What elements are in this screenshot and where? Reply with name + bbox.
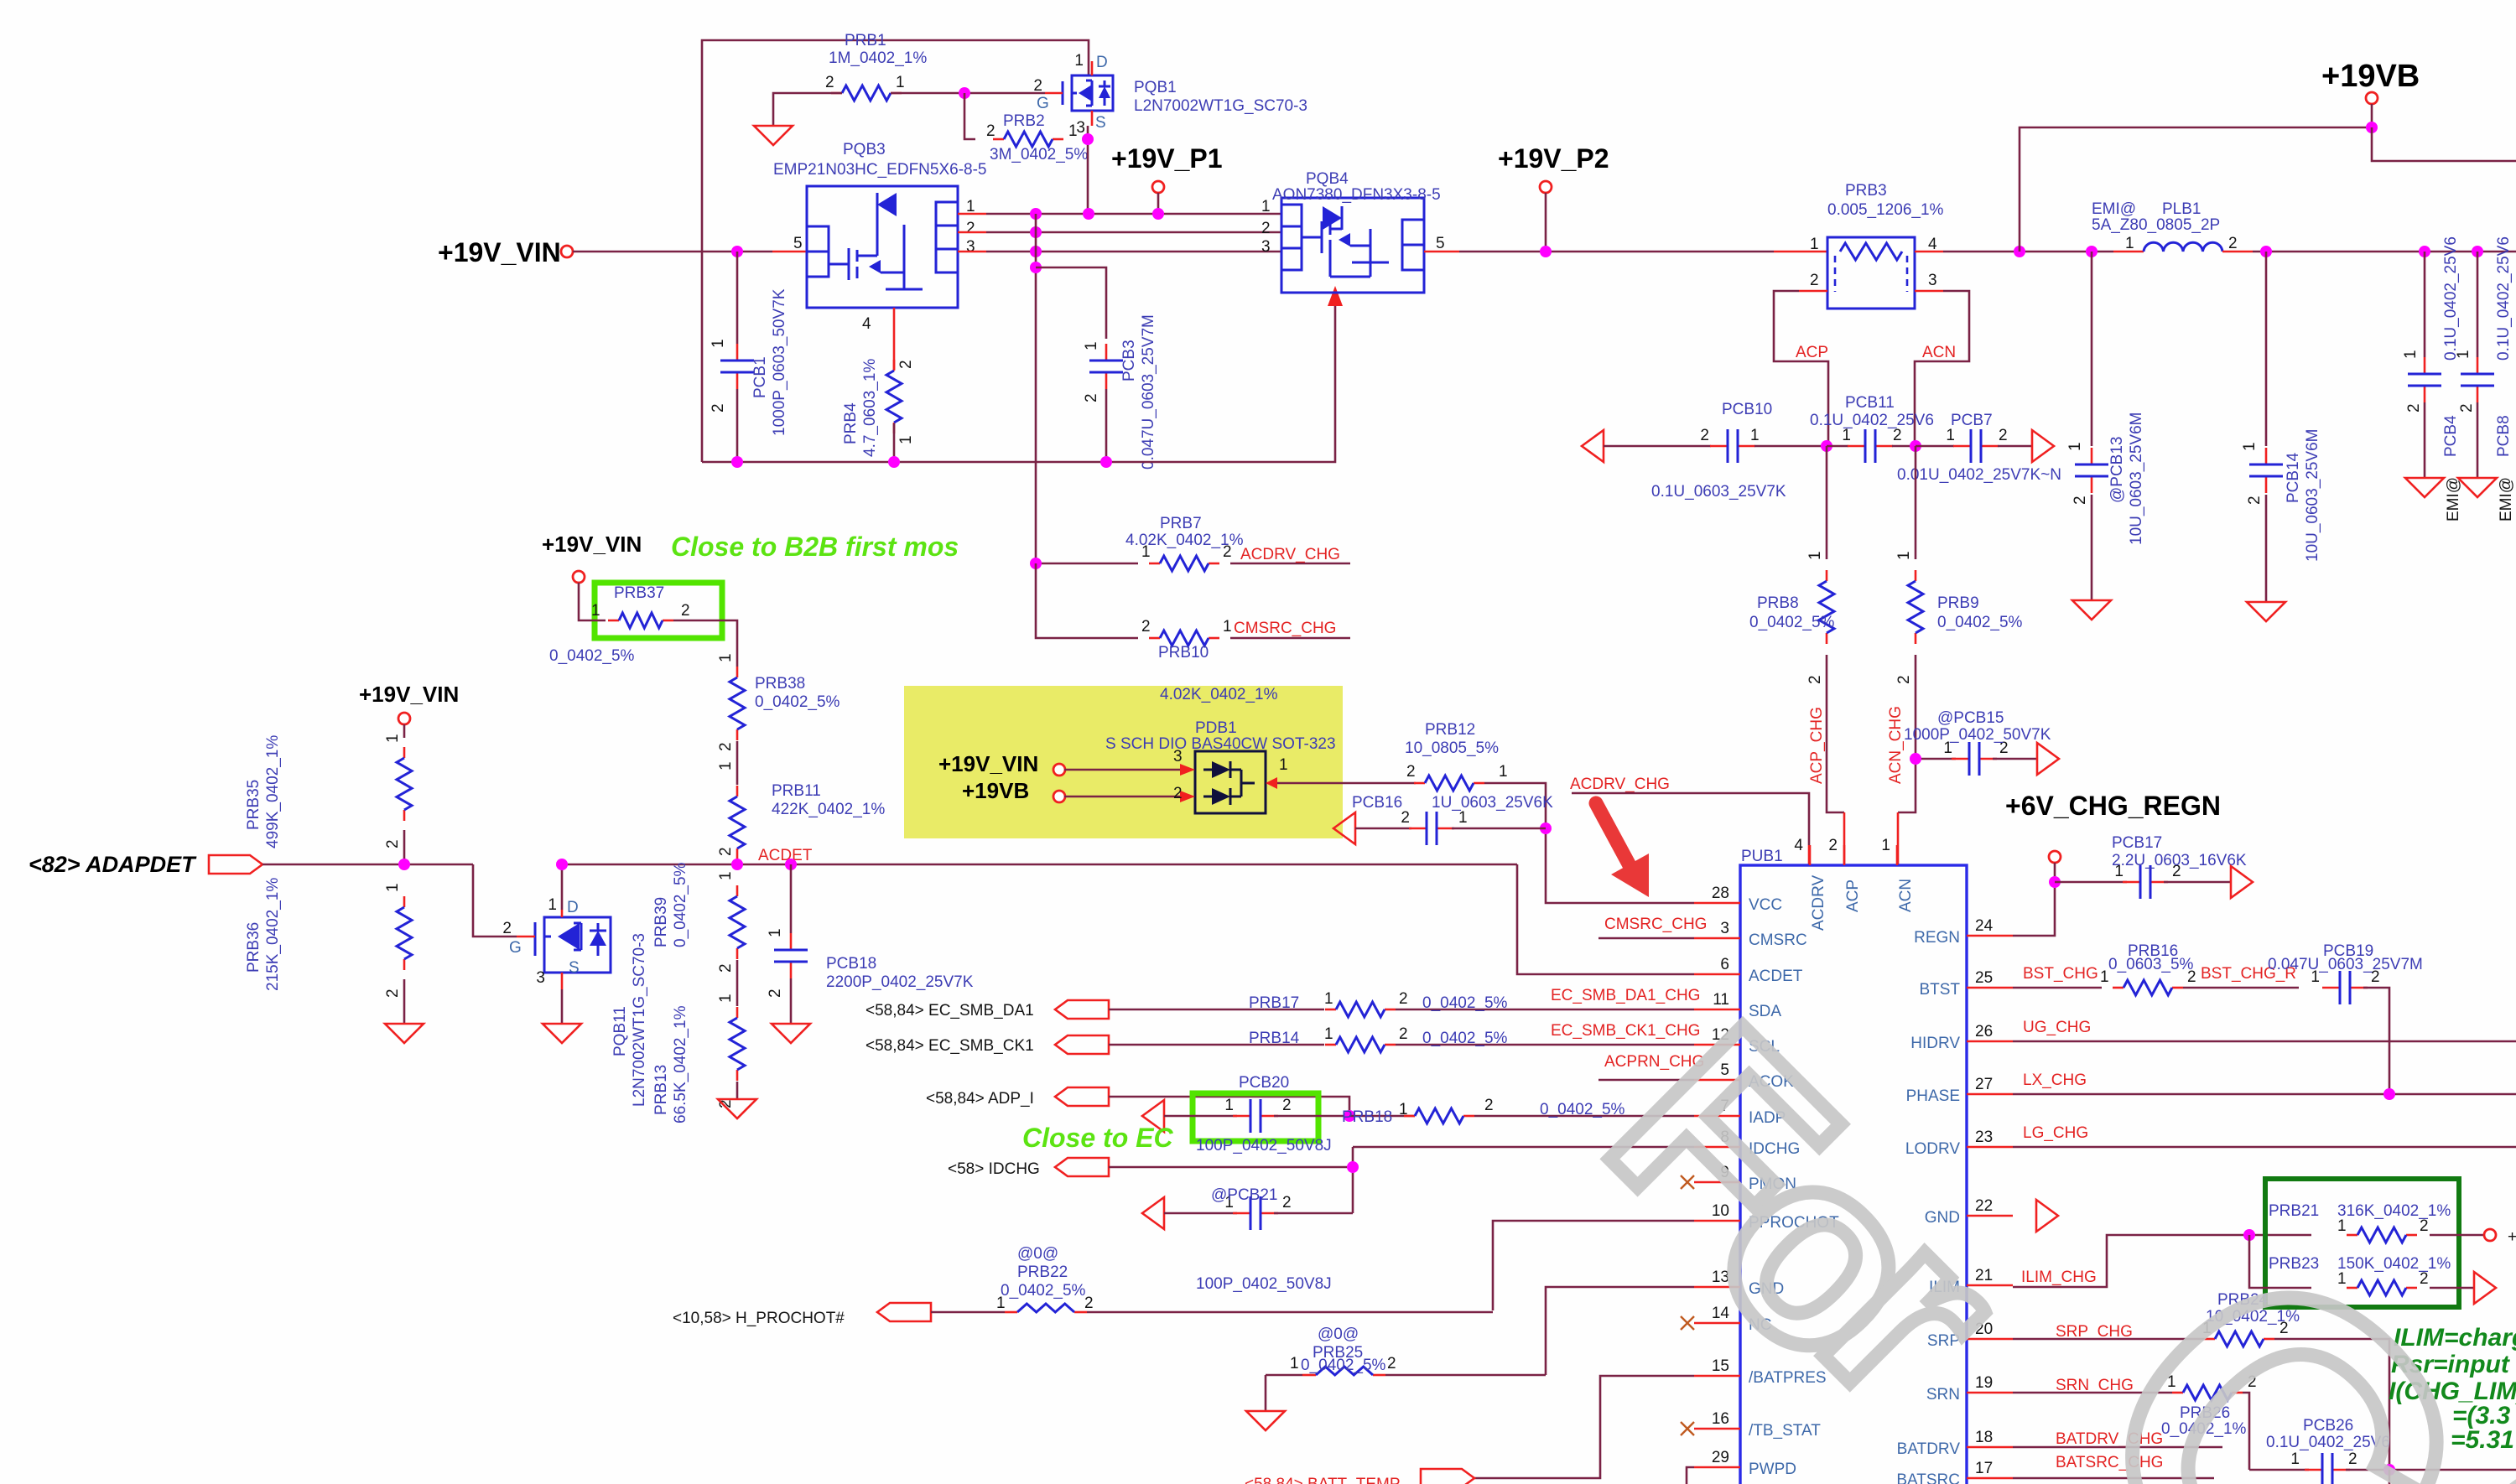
svg-text:6: 6	[1720, 956, 1729, 973]
svg-text:0.1U_0603_25V7K: 0.1U_0603_25V7K	[1651, 483, 1786, 501]
pin 17 BATSRC	[1967, 1477, 2013, 1480]
svg-text:2: 2	[2405, 403, 2423, 413]
svg-text:PCB16: PCB16	[1352, 794, 1402, 812]
node IDCHG junction	[1347, 1161, 1359, 1173]
pin 20 SRP	[1967, 1338, 2013, 1341]
svg-text:100P_0402_50V8J: 100P_0402_50V8J	[1196, 1275, 1332, 1293]
wire +19V_P2 down	[1545, 193, 1547, 252]
wire ADP_I	[1109, 1097, 1349, 1116]
wire PRB1 pin1 to PQB1 gate node	[891, 92, 1045, 95]
svg-text:PCB18: PCB18	[826, 955, 876, 973]
svg-text:PQB4: PQB4	[1306, 170, 1349, 188]
svg-text:0.047U_0603_25V7M: 0.047U_0603_25V7M	[2268, 956, 2423, 973]
node rail-PRB4	[888, 456, 900, 468]
resistor PRB25 0_0402_5% (jumper)	[1266, 1374, 1302, 1377]
svg-text:0_0402_5%: 0_0402_5%	[1937, 614, 2023, 631]
node PCB3 branch	[1030, 262, 1042, 273]
node PRB1/PQB1 gate junction	[959, 87, 970, 99]
wire PQB3 pin1 row A	[958, 213, 986, 215]
svg-text:1: 1	[1499, 763, 1508, 781]
ground at PRB25	[1246, 1411, 1285, 1430]
pin 11 SDA	[1694, 1009, 1740, 1011]
svg-text:S: S	[1095, 114, 1106, 132]
svg-text:2: 2	[2228, 235, 2238, 252]
svg-text:+19V_VIN: +19V_VIN	[542, 532, 642, 557]
wire PQB4 pin5 main bus to PRB3	[1424, 251, 1459, 253]
resistor PRB13 66.5K_0402_1%	[730, 1007, 745, 1081]
pin 4 ACDRV	[1809, 845, 1812, 865]
resistor PRB2	[993, 132, 1063, 147]
wire gate node down to PRB2	[964, 93, 975, 139]
svg-text:0_0402_5%: 0_0402_5%	[1301, 1357, 1386, 1374]
wire +19V_P1 to row A	[1157, 193, 1160, 214]
svg-text:1: 1	[1750, 427, 1760, 444]
svg-text:CMSRC: CMSRC	[1749, 931, 1807, 949]
wire PRB2 pin1 / PQB1 source to row A	[1087, 126, 1089, 214]
node PRB7 tap	[1030, 558, 1042, 569]
svg-text:2: 2	[986, 122, 995, 140]
svg-text:10U_0603_25V6M: 10U_0603_25V6M	[2128, 413, 2145, 545]
svg-text:1: 1	[1290, 1355, 1299, 1372]
wire BATPRES to BATT_TEMP	[1474, 1376, 1694, 1478]
resistor PRB36 215K_0402_1%	[397, 896, 412, 970]
wire ACPRN_CHG to ACOK	[1598, 1079, 1694, 1082]
resistor PRB17 0_0402_5%	[1325, 1002, 1396, 1017]
capacitor PCB18 2200P_0402_25V7K	[790, 864, 793, 933]
svg-text:2: 2	[1083, 393, 1100, 402]
wire PRB25 to ground	[1265, 1375, 1267, 1411]
wire PRB37 to PRB38	[673, 620, 737, 667]
capacitor PCB16 1U_0603_25V6K	[1333, 812, 1355, 844]
svg-text:Close to B2B first mos: Close to B2B first mos	[671, 532, 959, 562]
svg-text:+19VB: +19VB	[962, 778, 1029, 803]
node +19V_P2 junction	[1540, 246, 1552, 257]
svg-text:0_0402_5%: 0_0402_5%	[1749, 614, 1835, 631]
transistor PQB4 AON7380_DFN3X3-8-5	[1281, 198, 1424, 293]
wire PRB1 pin2 to ground	[773, 93, 842, 126]
svg-text:0.01U_0402_25V7K~N: 0.01U_0402_25V7K~N	[1897, 466, 2061, 484]
svg-text:3: 3	[536, 969, 545, 987]
svg-text:2: 2	[502, 920, 512, 937]
wire PRB11 to ACDET	[736, 860, 739, 865]
svg-text:S: S	[569, 959, 580, 977]
resistor PRB14 0_0402_5%	[1325, 1037, 1396, 1052]
node REGN junction	[2049, 876, 2061, 888]
svg-text:@PCB13: @PCB13	[2108, 437, 2126, 504]
svg-text:0_0402_5%: 0_0402_5%	[1422, 994, 1508, 1012]
svg-text:PRB9: PRB9	[1937, 594, 1979, 612]
svg-text:ACDRV: ACDRV	[1810, 875, 1827, 931]
svg-text:25: 25	[1975, 969, 1993, 987]
svg-text:PRB1: PRB1	[845, 32, 886, 49]
ground at PCB13	[2072, 600, 2111, 620]
pin 6 ACDET	[1694, 973, 1740, 976]
svg-text:2: 2	[1141, 618, 1151, 636]
svg-text:UG_CHG: UG_CHG	[2023, 1019, 2091, 1036]
highlight yellow box around PDB1	[904, 686, 1343, 838]
resistor PRB3 0.005_1206_1% (sense)	[1827, 237, 1915, 309]
node PCB26 junction	[2383, 1464, 2395, 1476]
svg-text:1U_0603_25V6K: 1U_0603_25V6K	[1432, 794, 1553, 812]
svg-text:PRB35: PRB35	[245, 780, 263, 830]
svg-text:2: 2	[1700, 427, 1709, 444]
svg-text:PRB39: PRB39	[652, 897, 670, 947]
svg-text:VCC: VCC	[1749, 896, 1782, 914]
wire SRN	[2013, 1392, 2172, 1394]
svg-text:2: 2	[1893, 427, 1902, 444]
wire +19V_VIN to PRB37	[579, 583, 606, 620]
svg-text:0.005_1206_1%: 0.005_1206_1%	[1827, 201, 1944, 219]
wire BATDRV out	[2013, 1446, 2222, 1449]
svg-text:PCB3: PCB3	[1120, 340, 1138, 381]
svg-text:29: 29	[1712, 1449, 1729, 1466]
ground at PCB8	[2458, 478, 2497, 497]
wire +19VB to right edge	[2372, 127, 2516, 161]
node @PCB15 junction	[1910, 753, 1921, 765]
svg-text:PCB8: PCB8	[2495, 415, 2513, 457]
node row B tie	[1030, 226, 1042, 238]
wire +19V_VIN to PQB3 pin5	[573, 251, 772, 253]
svg-text:26: 26	[1975, 1023, 1993, 1040]
svg-text:REGN: REGN	[1914, 929, 1960, 947]
wire PRB38 to PRB11	[736, 741, 739, 785]
svg-text:G: G	[1037, 95, 1049, 112]
wire sense column down	[1036, 563, 1138, 638]
svg-text:2: 2	[1810, 272, 1819, 289]
svg-text:1: 1	[1279, 756, 1288, 774]
resistor PRB9 0_0402_5%	[1915, 446, 1917, 559]
svg-text:2: 2	[1806, 675, 1824, 684]
svg-text:PCB4: PCB4	[2442, 415, 2460, 457]
svg-text:EMI@: EMI@	[2092, 200, 2136, 218]
resistor PRB18 0_0402_5%	[1349, 1115, 1415, 1118]
wire ACDET to pin 6	[1517, 864, 1694, 974]
svg-text:PCB14: PCB14	[2285, 452, 2302, 503]
wire PCB3 branch	[1036, 267, 1106, 339]
svg-text:PRB8: PRB8	[1757, 594, 1799, 612]
svg-text:2: 2	[1223, 543, 1232, 561]
capacitor PCB14 10U_0603_25V6M	[2265, 252, 2268, 446]
inductor PLB1 5A_Z80_0805_2P	[2144, 242, 2222, 252]
svg-text:0.047U_0603_25V7M: 0.047U_0603_25V7M	[1140, 314, 1157, 470]
capacitor PCB4 0.1U_0402_25V6	[2424, 252, 2426, 357]
svg-text:1: 1	[767, 928, 784, 937]
svg-text:Close to EC: Close to EC	[1022, 1123, 1173, 1153]
svg-text:ACN: ACN	[1897, 879, 1915, 912]
resistor PRB10 4.02K_0402_1%	[1149, 630, 1219, 646]
resistor PRB16 0_0603_5%	[2113, 980, 2183, 995]
wire IDCHG column to pin 8	[1353, 1146, 1694, 1149]
wire ADAPDET	[263, 864, 473, 866]
wire PRB39 to PRB13	[736, 960, 739, 1006]
arrow right PCB7	[2032, 430, 2054, 462]
pin 3 CMSRC	[1694, 937, 1740, 940]
wire PRB3 pin2 to ACP	[1799, 290, 1827, 293]
svg-text:1: 1	[717, 994, 735, 1003]
annotation red arrow	[1596, 803, 1649, 897]
node rail-PCB3	[1100, 456, 1112, 468]
svg-text:BATDRV: BATDRV	[1897, 1440, 1961, 1458]
wire GND pin13 from PRB25	[1546, 1287, 1694, 1375]
svg-text:1: 1	[897, 435, 915, 444]
resistor PRB37 0_0402_5%	[608, 613, 673, 628]
svg-text:0_0603_5%: 0_0603_5%	[2108, 956, 2194, 973]
transistor PQB3 EMP21N03HC_EDFN5X6-8-5	[807, 186, 958, 308]
svg-text:PRB37: PRB37	[614, 584, 664, 602]
svg-text:ACDET: ACDET	[758, 847, 813, 864]
capacitor @PCB15 1000P_0402_50V7K	[1916, 758, 1956, 760]
svg-text:23: 23	[1975, 1129, 1993, 1146]
wire GND pin22 arrow	[2036, 1200, 2058, 1232]
svg-text:2: 2	[1999, 427, 2008, 444]
svg-text:ACDRV_CHG: ACDRV_CHG	[1570, 776, 1670, 793]
svg-text:1: 1	[2455, 350, 2472, 359]
pin 18 BATDRV	[1967, 1446, 2013, 1449]
transistor PQB1 L2N7002WT1G_SC70-3	[1045, 61, 1113, 126]
svg-text:CMSRC_CHG: CMSRC_CHG	[1604, 916, 1707, 933]
wire CMSRC_CHG	[1598, 937, 1694, 940]
svg-text:2: 2	[681, 602, 690, 620]
svg-text:+19V_P2: +19V_P2	[1498, 143, 1609, 174]
svg-text:PDB1: PDB1	[1195, 719, 1237, 737]
node row A tie	[1030, 208, 1042, 220]
wire PQB11 drain to ACDET wire	[562, 864, 1517, 910]
node row C tie	[1030, 246, 1042, 257]
svg-text:PRB22: PRB22	[1017, 1263, 1068, 1281]
svg-text:0.1U_0402_25V6: 0.1U_0402_25V6	[2495, 236, 2513, 361]
diode PDB1 S SCH DIO BAS40CW SOT-323	[1064, 751, 1277, 813]
svg-text:2: 2	[825, 74, 834, 91]
svg-text:2: 2	[717, 963, 735, 973]
svg-text:215K_0402_1%: 215K_0402_1%	[264, 878, 282, 991]
power terminal PRB21 right	[2484, 1229, 2496, 1241]
pin 28 VCC	[1694, 902, 1740, 905]
svg-text:SRN: SRN	[1926, 1386, 1960, 1404]
ground at PQB11	[543, 1024, 581, 1043]
node ACN junction	[1910, 440, 1921, 452]
wire BTST to PRB16	[2013, 987, 2102, 989]
svg-text:2: 2	[1399, 990, 1408, 1008]
svg-text:2: 2	[1828, 837, 1838, 854]
svg-text:HIDRV: HIDRV	[1910, 1035, 1960, 1052]
svg-text:EMP21N03HC_EDFN5X6-8-5: EMP21N03HC_EDFN5X6-8-5	[773, 161, 987, 179]
svg-text:<10,58> H_PROCHOT#: <10,58> H_PROCHOT#	[673, 1310, 845, 1327]
svg-text:2: 2	[1173, 785, 1183, 802]
svg-text:2.2U_0603_16V6K: 2.2U_0603_16V6K	[2112, 852, 2247, 869]
capacitor PCB20 100P_0402_50V8J	[1142, 1100, 1164, 1132]
svg-text:2: 2	[710, 403, 727, 413]
node ADP_I/PCB20 junction	[1344, 1110, 1355, 1122]
ground at PCB18	[772, 1024, 810, 1043]
svg-text:<58,84> EC_SMB_DA1: <58,84> EC_SMB_DA1	[866, 1002, 1034, 1020]
svg-text:10_0805_5%: 10_0805_5%	[1405, 739, 1499, 757]
svg-text:66.5K_0402_1%: 66.5K_0402_1%	[672, 1005, 689, 1123]
node +19V_P1 junction	[1152, 208, 1164, 220]
svg-text:ACN: ACN	[1922, 344, 1956, 361]
wire ILIM down to PRB23	[2249, 1235, 2311, 1288]
arrow right PCB17	[2231, 866, 2253, 898]
svg-text:1: 1	[2066, 442, 2084, 451]
wire EC_SMB_CK1	[1109, 1044, 1324, 1046]
svg-text:1: 1	[1224, 1097, 1234, 1114]
svg-text:PUB1: PUB1	[1741, 848, 1783, 865]
pin 24 REGN	[1967, 935, 2013, 937]
svg-text:ACDRV_CHG: ACDRV_CHG	[1240, 546, 1340, 563]
node +19VB drop junction	[2014, 246, 2025, 257]
capacitor PCB11 0.1U_0402_25V6	[1827, 445, 1848, 448]
svg-text:EC_SMB_DA1_CHG: EC_SMB_DA1_CHG	[1551, 987, 1700, 1004]
wire HIDRV out	[2013, 1040, 2516, 1043]
pin 23 LODRV	[1967, 1146, 2013, 1149]
svg-text:1: 1	[710, 339, 727, 348]
svg-text:PRB38: PRB38	[755, 675, 805, 693]
capacitor PCB13 10U_0603_25V6M	[2091, 252, 2093, 446]
svg-text:EC_SMB_CK1_CHG: EC_SMB_CK1_CHG	[1551, 1022, 1700, 1040]
svg-text:PRB10: PRB10	[1158, 644, 1209, 662]
wire SRP	[2013, 1338, 2204, 1341]
wire EC_SMB_DA1	[1109, 1009, 1324, 1011]
svg-text:2: 2	[2371, 968, 2380, 986]
svg-text:ACP: ACP	[1844, 880, 1862, 912]
pin 27 PHASE	[1967, 1093, 2013, 1096]
svg-text:4.7_0603_1%: 4.7_0603_1%	[861, 359, 879, 457]
pin 16 /TB_STAT	[1694, 1428, 1740, 1430]
svg-text:1: 1	[548, 896, 557, 914]
svg-text:PRB12: PRB12	[1425, 721, 1475, 739]
pin 12 SCL	[1694, 1044, 1740, 1046]
svg-text:PRB14: PRB14	[1249, 1030, 1300, 1047]
highlight dark green box PRB21/PRB23	[2265, 1179, 2459, 1307]
svg-text:+19VB: +19VB	[2321, 59, 2420, 94]
svg-text:BATSRC: BATSRC	[1896, 1471, 1960, 1484]
svg-text:0_0402_5%: 0_0402_5%	[755, 693, 840, 711]
svg-text:3: 3	[1720, 920, 1729, 937]
arrow right PRB23	[2474, 1272, 2496, 1304]
svg-text:PQB3: PQB3	[843, 141, 886, 158]
svg-text:28: 28	[1712, 885, 1729, 902]
resistor PRB4 4.7_0603_1%	[893, 308, 896, 370]
svg-text:0_0402_5%: 0_0402_5%	[1540, 1101, 1625, 1118]
wire bottom rail	[702, 306, 1335, 462]
svg-text:ILIM_CHG: ILIM_CHG	[2021, 1269, 2097, 1286]
svg-text:LG_CHG: LG_CHG	[2023, 1124, 2088, 1142]
pin 9 PMON	[1694, 1181, 1740, 1184]
svg-text:2: 2	[2187, 968, 2196, 986]
capacitor PCB3 0.047U_0603_25V7M	[1089, 344, 1123, 389]
no-connect TB_STAT	[1681, 1422, 1694, 1435]
svg-text:PRB13: PRB13	[652, 1065, 670, 1115]
svg-text:2: 2	[767, 988, 784, 998]
svg-text:<58,84> ADP_I: <58,84> ADP_I	[926, 1090, 1034, 1108]
watermark For Co	[1556, 972, 2516, 1484]
node ACDET PCB18	[785, 859, 797, 870]
svg-text:@PCB21: @PCB21	[1211, 1186, 1278, 1204]
ground at PCB14	[2247, 602, 2285, 621]
svg-text:G: G	[509, 939, 522, 957]
svg-text:0_0402_5%: 0_0402_5%	[549, 647, 635, 665]
wire PWPD	[1687, 1467, 1694, 1484]
svg-text:2: 2	[1401, 809, 1410, 827]
svg-text:@0@: @0@	[1017, 1245, 1058, 1263]
svg-text:1: 1	[1141, 543, 1151, 561]
wire PQB3 pin2 row B	[958, 231, 986, 234]
svg-text:ACP_CHG: ACP_CHG	[1808, 707, 1826, 784]
svg-text:2: 2	[1406, 763, 1416, 781]
svg-text:+19V_VIN: +19V_VIN	[359, 682, 459, 707]
svg-text:2: 2	[897, 360, 915, 369]
svg-text:3: 3	[1261, 238, 1271, 256]
svg-text:100P_0402_50V8J: 100P_0402_50V8J	[1196, 1137, 1332, 1155]
svg-text:2: 2	[1399, 1025, 1408, 1043]
svg-text:ACP: ACP	[1796, 344, 1828, 361]
node PCB8 junction	[2472, 246, 2483, 257]
svg-text:PCB17: PCB17	[2112, 834, 2162, 852]
svg-text:L2N7002WT1G_SC70-3: L2N7002WT1G_SC70-3	[631, 933, 648, 1107]
svg-text:S SCH DIO BAS40CW SOT-323: S SCH DIO BAS40CW SOT-323	[1105, 735, 1336, 753]
wire IDCHG	[1109, 1166, 1353, 1169]
svg-text:ACN_CHG: ACN_CHG	[1887, 706, 1905, 784]
node PCB14 junction	[2260, 246, 2272, 257]
svg-text:2: 2	[1282, 1097, 1292, 1114]
svg-text:2: 2	[2420, 1217, 2429, 1235]
resistor PRB39 0_0402_5%	[730, 885, 745, 959]
capacitor PCB8 0.1U_0402_25V6	[2477, 252, 2479, 357]
svg-text:PQB11: PQB11	[611, 1006, 629, 1056]
wire PRB3 pin3 to ACN	[1915, 290, 1943, 293]
resistor PRB26 0_0402_1%	[2172, 1385, 2243, 1400]
svg-text:@0@: @0@	[1318, 1326, 1359, 1343]
ground at PCB4	[2405, 478, 2444, 497]
svg-text:4: 4	[1794, 837, 1803, 854]
svg-text:2: 2	[717, 847, 735, 856]
svg-text:2: 2	[1484, 1097, 1494, 1114]
node +19VB tee	[2366, 122, 2378, 133]
svg-text:1: 1	[1895, 551, 1913, 560]
svg-text:1: 1	[1458, 809, 1468, 827]
node ADAPDET junction	[398, 859, 410, 870]
wire LODRV out	[2013, 1146, 2516, 1149]
svg-text:2: 2	[1033, 77, 1042, 95]
pin 22 GND	[1967, 1215, 2013, 1217]
svg-text:AON7380_DFN3X3-8-5: AON7380_DFN3X3-8-5	[1272, 186, 1441, 204]
svg-text:2: 2	[384, 988, 402, 998]
svg-text:1: 1	[2100, 968, 2109, 986]
node PCB1 top junction	[731, 246, 743, 257]
svg-text:19: 19	[1975, 1374, 1993, 1392]
svg-text:PQB1: PQB1	[1134, 79, 1177, 96]
wire PLB1 to right edge	[2253, 251, 2516, 253]
pin 2 ACP	[1843, 845, 1846, 865]
resistor PRB12 10_0805_5%	[1414, 776, 1484, 791]
svg-text:2: 2	[1387, 1355, 1396, 1372]
svg-text:2: 2	[2072, 496, 2089, 505]
svg-text:1: 1	[1946, 427, 1955, 444]
svg-text:BTST: BTST	[1919, 981, 1960, 999]
resistor PRB1	[831, 86, 902, 101]
svg-text:+19V_P1: +19V_P1	[1111, 143, 1223, 174]
svg-text:EMI@: EMI@	[2445, 477, 2462, 521]
svg-text:1: 1	[717, 871, 735, 880]
svg-text:4.02K_0402_1%: 4.02K_0402_1%	[1160, 686, 1278, 703]
svg-text:+: +	[2508, 1228, 2516, 1246]
svg-text:1: 1	[1810, 236, 1819, 253]
no-connect NC	[1681, 1316, 1694, 1330]
svg-text:+6V_CHG_REGN: +6V_CHG_REGN	[2005, 791, 2221, 821]
pin 25 BTST	[1967, 987, 2013, 989]
wire PQB3 pin3 row C	[958, 251, 986, 253]
svg-text:1: 1	[1399, 1101, 1408, 1118]
svg-text:PRB3: PRB3	[1845, 182, 1887, 200]
